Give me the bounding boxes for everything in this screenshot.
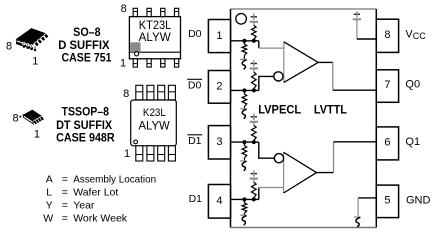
termination squiggle below resistor R1b [240,58,246,60]
svg-text:ALYW: ALYW [139,32,171,44]
svg-text:GND: GND [406,195,431,207]
pin 5 box [376,185,398,218]
wire VCC rail down [356,19,358,39]
termination squiggle below resistor R3b [240,160,246,162]
SO-8 bottom pin 3 [161,59,165,67]
wire from pin 5 [358,197,376,199]
resistor R4a (pull-up on input 4) [252,182,257,198]
svg-text:4: 4 [216,195,222,207]
TSSOP-8 package isometric view [19,110,44,125]
svg-text:CASE 751: CASE 751 [62,51,112,65]
svg-text:=: = [62,173,68,185]
SO-8 bottom pin 2 [147,59,151,67]
svg-text:Assembly Location: Assembly Location [73,173,156,185]
svg-text:LVPECL: LVPECL [258,102,301,116]
svg-text:ALYW: ALYW [139,120,170,132]
svg-text:8: 8 [13,112,19,124]
svg-text:TSSOP–8: TSSOP–8 [62,105,110,119]
TSSOP-8 top pin 7 [147,85,154,100]
node junction dot on wire 4 (right) [252,197,256,201]
node junction dot on wire 3 (left) [242,140,246,144]
wire pin 5 down to ground squiggle [357,198,359,216]
resistor R2b (pull-down on input 2) [242,94,247,107]
VCC rail symbol above wire 3 [251,116,257,118]
svg-text:KT23L: KT23L [139,20,172,32]
svg-text:2: 2 [216,81,222,93]
svg-text:VCC: VCC [405,29,426,41]
SO-8 top pin 8 [133,8,137,16]
svg-text:K23L: K23L [143,107,166,119]
TSSOP-8 pin1 index circle [134,140,138,144]
TSSOP-8 marking diagram body [131,100,177,146]
inverting input bubble U1b [274,154,283,163]
svg-text:1: 1 [34,129,40,141]
svg-text:8: 8 [121,3,127,15]
VCC rail symbol at pin 8 [354,13,360,15]
node junction dot on wire 1 (left) [242,39,246,43]
node junction dot on wire 2 (left) [242,88,246,92]
svg-text:Y: Y [46,200,53,212]
wire from pin 3 [231,141,259,143]
op-amp U1a buffer triangle [284,42,318,83]
resistor R3b (pull-down on input 3) [242,146,247,159]
svg-text:SO–8: SO–8 [73,25,101,39]
TSSOP-8 top pin 8 [136,85,143,100]
wire D1 to buffer input [258,188,260,200]
SO-8 top pin 5 [174,8,178,16]
svg-text:Year: Year [73,200,95,212]
pin 7 box [376,70,398,103]
SO-8 pin1 index circle [135,52,139,56]
wire D0 to buffer input [258,41,260,48]
svg-text:CASE 948R: CASE 948R [56,131,115,145]
svg-text:D0: D0 [188,80,202,92]
svg-text:L: L [46,187,52,199]
SO-8 marking diagram body [129,17,180,59]
svg-text:D1: D1 [189,193,203,205]
svg-text:A: A [46,173,53,185]
VCC rail symbol above wire 4 [251,173,257,175]
svg-text:1: 1 [120,58,126,70]
resistor R2a (pull-up on input 2) [252,72,257,89]
SO-8 bottom pin 1 [133,59,137,67]
svg-text:8: 8 [384,29,390,41]
svg-text:5: 5 [384,194,390,206]
wire to pin 8 [357,38,376,40]
wire from pin 2 [231,89,259,91]
svg-text:Wafer Lot: Wafer Lot [73,187,118,199]
wire rail to resistor 3 [253,122,255,126]
wire from pin 1 [231,40,259,42]
svg-text:7: 7 [384,79,390,91]
svg-text:8: 8 [6,41,12,53]
wire rail to resistor 4 [253,179,255,183]
IC outline [231,8,377,10]
pin 8 box [376,19,398,52]
ground termination squiggle [354,216,360,218]
op-amp U1b buffer triangle [284,152,317,193]
wire D0bar to inverting input [259,76,274,90]
svg-text:1: 1 [32,55,38,67]
svg-text:1: 1 [124,148,130,160]
svg-text:Q0: Q0 [405,79,420,91]
TSSOP-8 bottom pin 2 [147,146,154,161]
internal reference circle [236,13,247,24]
wire D1bar to inverting input [259,142,275,158]
svg-text:W: W [43,213,53,225]
wire buffer U1a output to pin 7 [318,61,333,63]
SO-8 top pin 7 [147,8,151,16]
termination squiggle below resistor R2b [240,108,246,110]
svg-text:D1: D1 [188,135,202,147]
termination squiggle below resistor R4b [240,214,246,216]
node junction dot on wire 4 (left) [242,197,246,201]
pin 4 box [208,185,230,219]
svg-text:=: = [62,213,68,225]
SO-8 pin1 gray marker [130,42,140,52]
svg-text:D0: D0 [188,28,202,40]
TSSOP-8 bottom pin 3 [158,146,165,161]
resistor R3a (pull-up on input 3) [252,125,257,140]
svg-text:Work Week: Work Week [73,213,128,225]
node junction dot on wire 2 (right) [252,88,256,92]
SO-8 package isometric view [16,28,49,51]
svg-text:Q1: Q1 [405,136,420,148]
wire rail to resistor 2 [253,69,255,73]
svg-text:=: = [62,187,68,199]
TSSOP-8 top pin 6 [158,85,165,100]
TSSOP-8 bottom pin 4 [168,146,175,161]
pin 3 box [208,126,230,159]
inverting input bubble U1a [274,72,283,81]
svg-text:=: = [62,200,68,212]
pin 6 box [376,127,398,160]
wire from pin 4 [231,198,259,200]
wire buffer U1b output to pin 6 [317,172,334,174]
svg-text:1: 1 [216,30,222,42]
SO-8 top pin 6 [161,8,165,16]
wire rail to resistor 1 [253,22,255,26]
node junction dot on wire 3 (right) [252,140,256,144]
VCC rail symbol above wire 2 [251,63,257,65]
svg-text:6: 6 [384,136,390,148]
resistor R4b (pull-down on input 4) [242,203,247,213]
SO-8 bottom pin 4 [174,59,178,67]
node junction dot on wire 1 (right) [252,39,256,43]
svg-text:3: 3 [216,136,222,148]
resistor R1b (pull-down on input 1) [242,44,247,55]
TSSOP-8 bottom pin 1 [136,146,143,161]
svg-text:LVTTL: LVTTL [314,102,347,116]
pin 1 box [208,20,230,53]
resistor R1a (pull-up on input 1) [252,25,257,39]
pin 2 box [208,71,230,104]
svg-text:8: 8 [123,88,129,100]
VCC rail symbol above wire 1 [251,16,257,18]
TSSOP-8 top pin 5 [168,85,175,100]
